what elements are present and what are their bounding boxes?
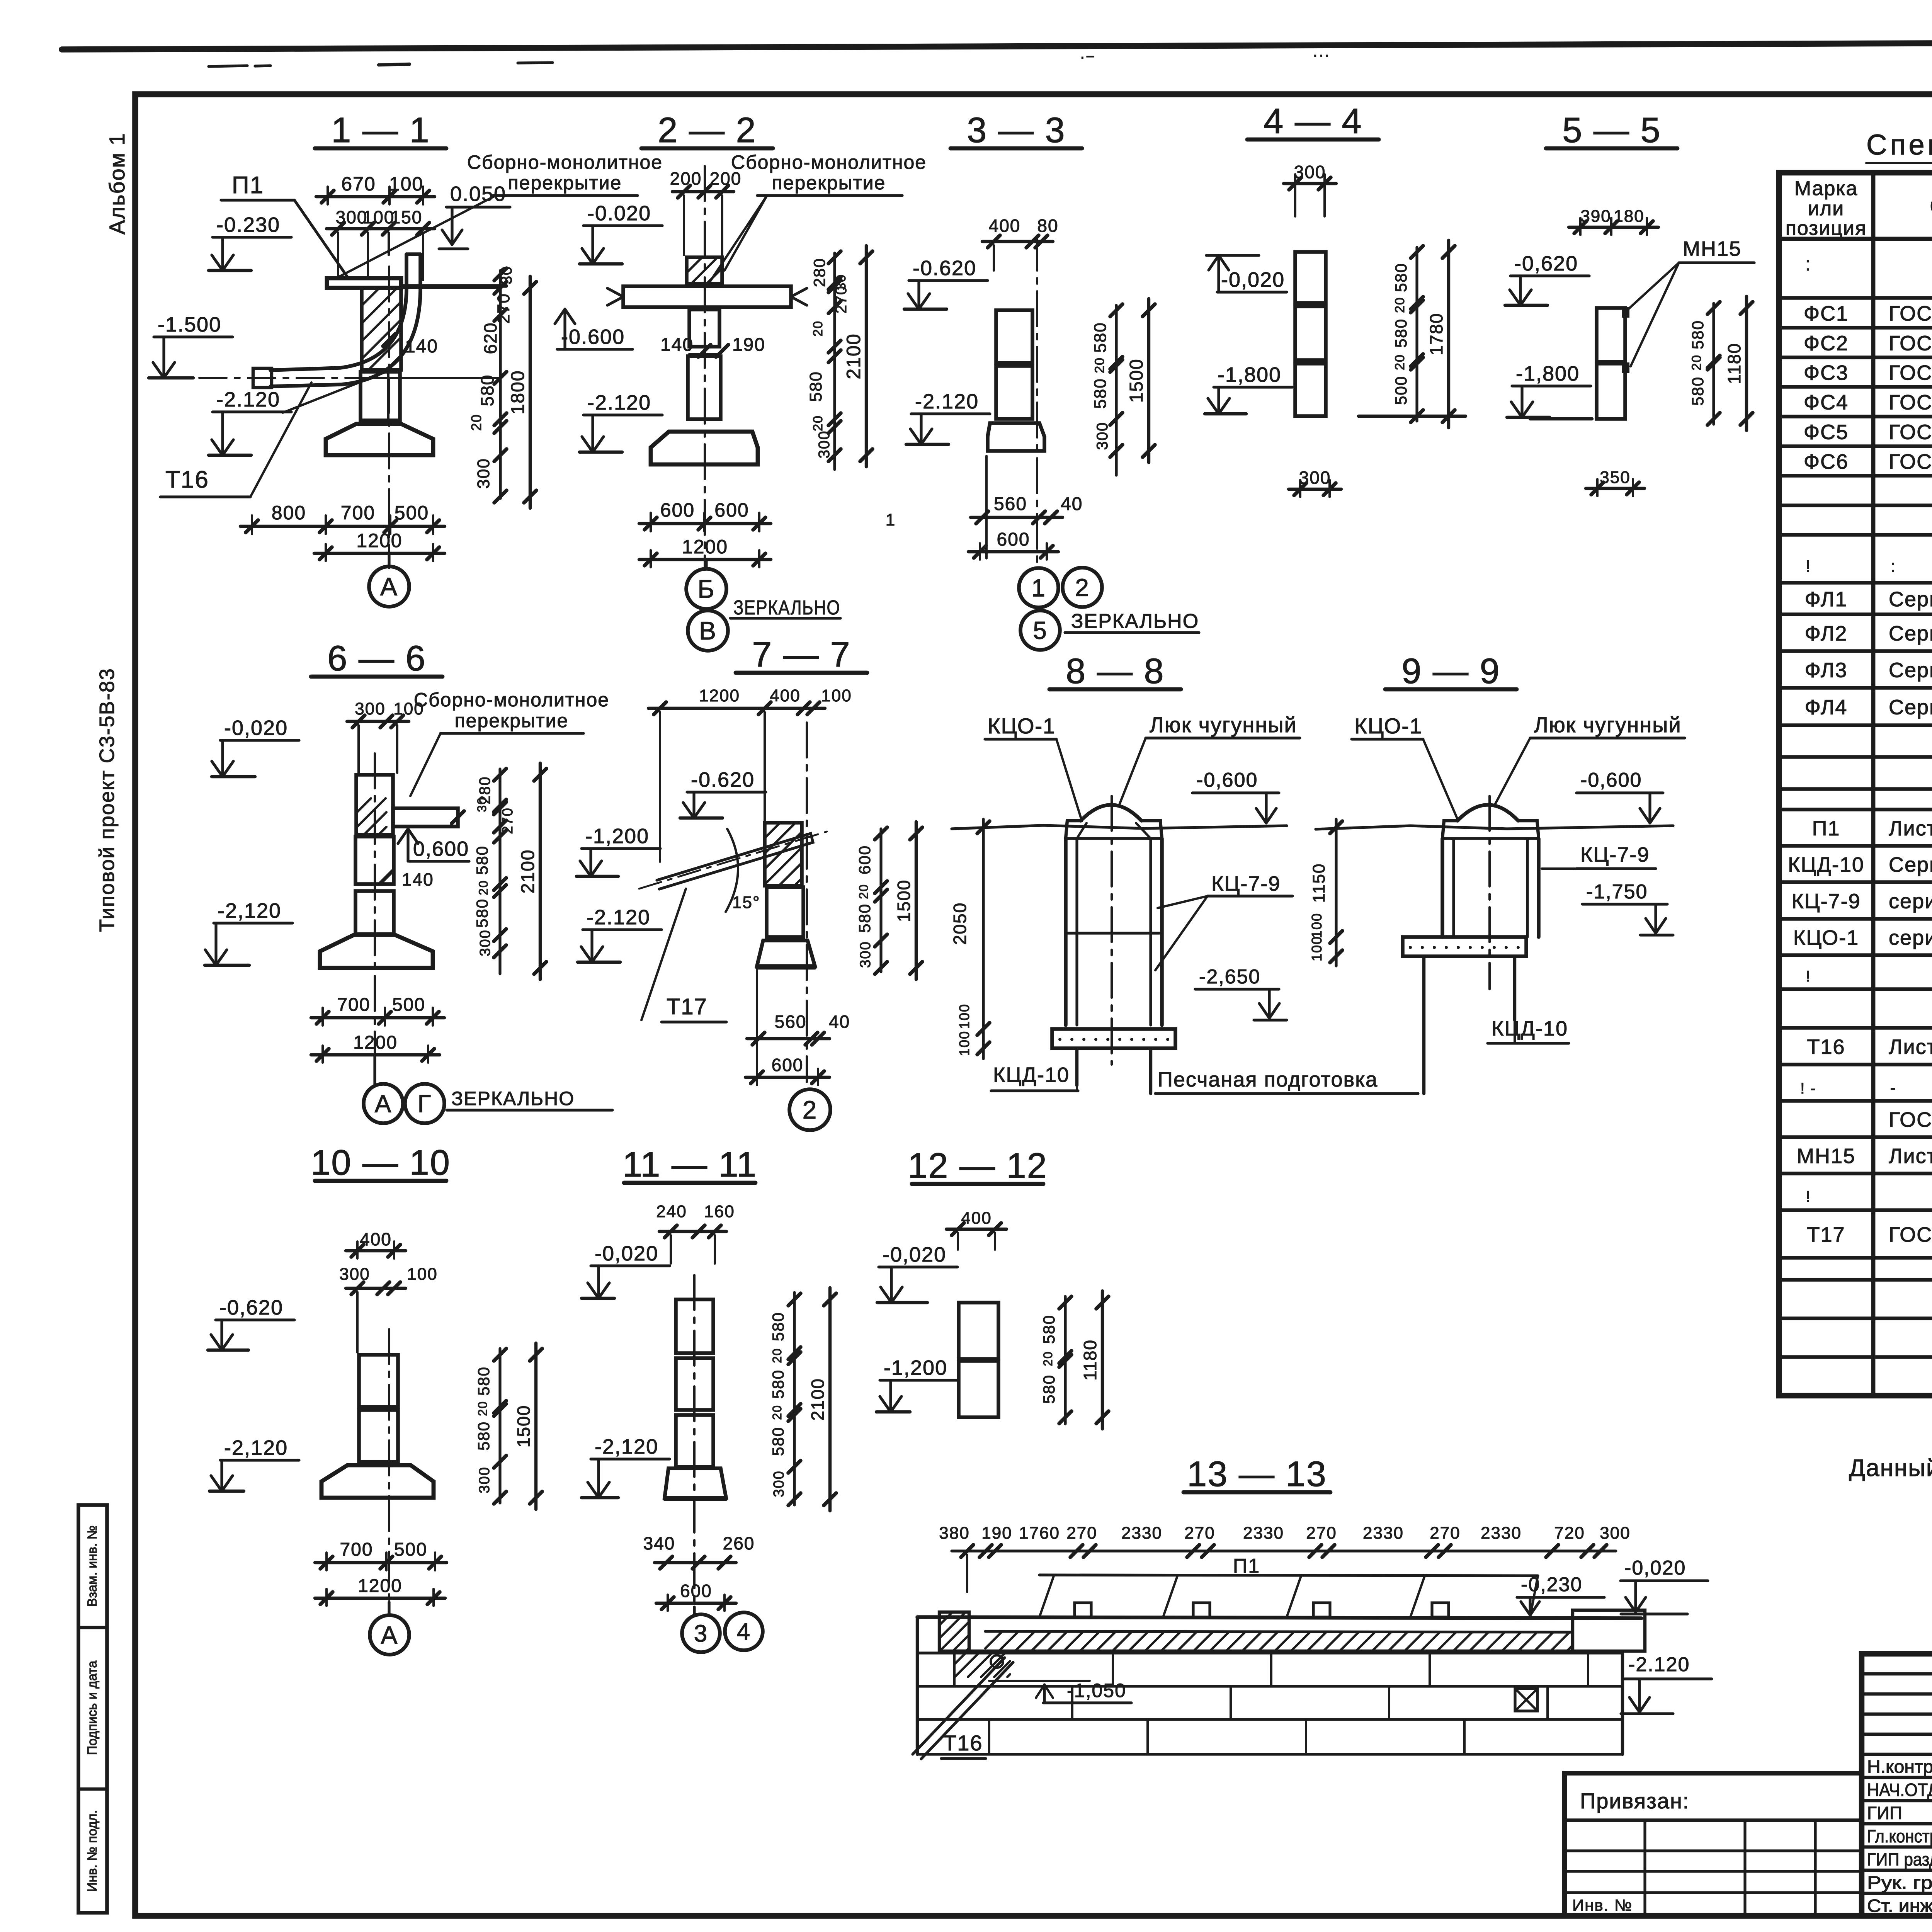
footing small trapezoid bbox=[665, 1468, 726, 1498]
svg-text:Взам. инв. №: Взам. инв. № bbox=[85, 1526, 100, 1607]
total 2100 bbox=[828, 1288, 832, 1511]
block bbox=[767, 887, 803, 937]
total 2100 bbox=[865, 246, 868, 467]
dim 300 100 bbox=[347, 720, 409, 723]
svg-text:4 — 4: 4 — 4 bbox=[1264, 102, 1362, 141]
svg-text:П1: П1 bbox=[232, 172, 264, 199]
svg-text:300: 300 bbox=[1600, 1524, 1630, 1543]
svg-text:580: 580 bbox=[477, 374, 497, 406]
svg-text:580: 580 bbox=[1392, 318, 1410, 348]
svg-text:Т16: Т16 bbox=[943, 1731, 983, 1755]
bottom dim 1200 bbox=[311, 1053, 440, 1056]
svg-text:1150: 1150 bbox=[1310, 863, 1328, 903]
bottom slab KCD-10 bbox=[1052, 1029, 1175, 1048]
svg-text:4: 4 bbox=[737, 1619, 751, 1645]
below-slab legs bbox=[1075, 1048, 1078, 1085]
blocks x3 bbox=[1295, 252, 1326, 303]
svg-text:300: 300 bbox=[1299, 468, 1331, 488]
svg-text:150: 150 bbox=[391, 207, 423, 227]
total 1800 bbox=[529, 276, 532, 508]
svg-text:580: 580 bbox=[1091, 378, 1110, 408]
svg-text:КЦ-7-9: КЦ-7-9 bbox=[1791, 890, 1861, 913]
svg-text:100: 100 bbox=[956, 1003, 972, 1029]
svg-text:ФЛ1: ФЛ1 bbox=[1805, 588, 1848, 611]
svg-text:20: 20 bbox=[811, 415, 825, 431]
svg-text:600: 600 bbox=[997, 529, 1030, 550]
footing trapezoid bbox=[326, 424, 433, 455]
svg-text:-0.600: -0.600 bbox=[561, 325, 625, 349]
svg-text:100: 100 bbox=[1309, 913, 1325, 938]
svg-text:270: 270 bbox=[1066, 1524, 1097, 1543]
svg-text:580: 580 bbox=[1392, 263, 1410, 292]
bottom dim 350 bbox=[1586, 487, 1645, 490]
svg-text:-0.620: -0.620 bbox=[691, 768, 755, 791]
svg-text:-2.120: -2.120 bbox=[216, 388, 280, 411]
centerline bbox=[388, 267, 390, 568]
svg-text:2100: 2100 bbox=[518, 849, 538, 894]
svg-text:300: 300 bbox=[857, 941, 874, 968]
svg-text:1180: 1180 bbox=[1724, 343, 1744, 384]
total 1180 bbox=[1101, 1291, 1104, 1429]
total 1500 bbox=[915, 822, 918, 980]
svg-text:КЦ-7-9: КЦ-7-9 bbox=[1580, 843, 1650, 866]
column blocks bbox=[355, 837, 394, 884]
angle arc 15deg bbox=[726, 829, 738, 912]
svg-text:Песчаная подготовка: Песчаная подготовка bbox=[1158, 1068, 1378, 1091]
svg-text:НАЧ.ОТД: НАЧ.ОТД bbox=[1867, 1780, 1932, 1800]
svg-text:580: 580 bbox=[855, 903, 874, 933]
svg-text:300: 300 bbox=[816, 430, 833, 459]
well walls double bbox=[1064, 838, 1068, 1025]
svg-text:ГИП разд: ГИП разд bbox=[1867, 1849, 1932, 1869]
svg-text:580: 580 bbox=[1040, 1374, 1058, 1404]
right dim chain bbox=[1115, 305, 1117, 475]
svg-text:Рук. гр.: Рук. гр. bbox=[1867, 1872, 1932, 1893]
svg-text:720: 720 bbox=[1554, 1524, 1585, 1543]
svg-text:40: 40 bbox=[1061, 494, 1083, 514]
svg-text:500: 500 bbox=[1392, 376, 1410, 405]
svg-text:Сборно-монолитное: Сборно-монолитное bbox=[467, 151, 663, 173]
svg-text:Люк чугунный: Люк чугунный bbox=[1150, 713, 1297, 737]
svg-text:ФЛ4: ФЛ4 bbox=[1805, 696, 1848, 719]
dims 1200 400 100 bbox=[648, 707, 825, 710]
centerline bbox=[806, 723, 808, 1082]
svg-text:200: 200 bbox=[670, 168, 702, 189]
svg-text:-1,200: -1,200 bbox=[884, 1356, 947, 1379]
svg-text:Н.контр.: Н.контр. bbox=[1867, 1757, 1932, 1777]
svg-text:600: 600 bbox=[680, 1581, 712, 1601]
svg-text::: : bbox=[1891, 557, 1896, 576]
centerline bbox=[374, 753, 376, 1080]
svg-text:Серия 1.112-5, вып.4: Серия 1.112-5, вып.4 bbox=[1889, 659, 1932, 682]
svg-text:20: 20 bbox=[770, 1348, 784, 1363]
svg-text:2050: 2050 bbox=[950, 902, 970, 945]
manhole dome bbox=[1081, 805, 1141, 821]
svg-text:8 — 8: 8 — 8 bbox=[1066, 651, 1164, 691]
total 1180 bbox=[1745, 296, 1748, 430]
privyazan box bbox=[1565, 1773, 1862, 1916]
svg-text:0,600: 0,600 bbox=[413, 837, 469, 861]
svg-text:260: 260 bbox=[723, 1533, 755, 1553]
top dim chain bbox=[952, 1549, 1616, 1552]
svg-text:-1.500: -1.500 bbox=[158, 313, 221, 336]
total 1500 bbox=[534, 1343, 537, 1509]
svg-text:180: 180 bbox=[1614, 207, 1644, 226]
axis circles 3 4 bbox=[682, 1614, 720, 1652]
svg-text:Типовой проект С3-5В-83: Типовой проект С3-5В-83 bbox=[95, 668, 119, 932]
svg-text:ФС2: ФС2 bbox=[1804, 332, 1849, 355]
svg-text:20: 20 bbox=[1092, 357, 1107, 373]
slab band with break arrows bbox=[623, 286, 791, 307]
svg-text:ФС6: ФС6 bbox=[1804, 450, 1849, 473]
bottom dim 1200 bbox=[314, 552, 445, 555]
svg-text:700: 700 bbox=[341, 502, 375, 524]
svg-text:Т16: Т16 bbox=[165, 466, 209, 493]
svg-text:2330: 2330 bbox=[1363, 1524, 1404, 1543]
svg-text:-2,650: -2,650 bbox=[1199, 966, 1260, 988]
pipe T16 curve bbox=[270, 254, 406, 370]
svg-text:Подпись и дата: Подпись и дата bbox=[85, 1661, 100, 1755]
slab band with notches bbox=[917, 1617, 1641, 1618]
svg-text:ЗЕРКАЛЬНО: ЗЕРКАЛЬНО bbox=[451, 1088, 575, 1109]
svg-text:140: 140 bbox=[405, 336, 438, 357]
svg-text:1200: 1200 bbox=[358, 1576, 402, 1596]
axis circle A bbox=[369, 566, 409, 607]
svg-text:190: 190 bbox=[732, 335, 765, 355]
svg-text:1 — 1: 1 — 1 bbox=[331, 111, 430, 150]
svg-text:-0,600: -0,600 bbox=[1580, 769, 1642, 791]
svg-text:270: 270 bbox=[1306, 1524, 1337, 1543]
svg-text:580: 580 bbox=[474, 1366, 493, 1396]
svg-text:-2.120: -2.120 bbox=[1628, 1653, 1690, 1676]
svg-text:Г: Г bbox=[418, 1090, 432, 1117]
svg-text:ФС4: ФС4 bbox=[1804, 391, 1849, 414]
svg-text:1500: 1500 bbox=[1126, 359, 1147, 403]
svg-text:Б: Б bbox=[697, 575, 715, 603]
svg-text:ЗЕРКАЛЬНО: ЗЕРКАЛЬНО bbox=[1071, 610, 1199, 633]
svg-text:КЦО-1: КЦО-1 bbox=[988, 714, 1056, 738]
svg-text:КЦД-10: КЦД-10 bbox=[1788, 853, 1864, 876]
axis circles A G bbox=[364, 1084, 403, 1123]
svg-text:20: 20 bbox=[1689, 354, 1704, 371]
svg-text:ГОСТ 13579-78: ГОСТ 13579-78 bbox=[1889, 450, 1932, 473]
svg-text:580: 580 bbox=[769, 1312, 787, 1341]
svg-text:ГОСТ 13579-78: ГОСТ 13579-78 bbox=[1889, 421, 1932, 444]
right dim chain bbox=[1415, 247, 1418, 421]
svg-text:Лист КШ-15: Лист КШ-15 bbox=[1889, 817, 1932, 840]
svg-text:270: 270 bbox=[500, 807, 516, 834]
svg-text::: : bbox=[1805, 253, 1811, 275]
axis circle A bbox=[370, 1615, 409, 1655]
svg-text:350: 350 bbox=[1600, 468, 1630, 487]
svg-text:580: 580 bbox=[769, 1427, 787, 1456]
svg-text:3 — 3: 3 — 3 bbox=[967, 111, 1065, 150]
svg-text:перекрытие: перекрытие bbox=[508, 172, 622, 194]
svg-text:700: 700 bbox=[337, 995, 370, 1015]
top block w/ hatch bbox=[356, 775, 393, 835]
svg-text:Инв. №: Инв. № bbox=[1572, 1896, 1633, 1914]
svg-text:Ст. инж.: Ст. инж. bbox=[1867, 1896, 1932, 1916]
svg-text:-0.020: -0.020 bbox=[587, 202, 651, 225]
column blocks bbox=[689, 310, 719, 347]
svg-text:80: 80 bbox=[1037, 216, 1058, 236]
centerline bbox=[693, 1275, 696, 1609]
svg-text:-2.120: -2.120 bbox=[915, 390, 979, 413]
svg-text:-0,020: -0,020 bbox=[1624, 1557, 1686, 1579]
dim 400 bbox=[946, 1228, 1007, 1231]
svg-text:300: 300 bbox=[771, 1470, 787, 1497]
dim 200 200 bbox=[672, 190, 734, 193]
bottom dims 340 260 bbox=[655, 1561, 736, 1564]
svg-text:-0,020: -0,020 bbox=[224, 716, 288, 740]
svg-text:190: 190 bbox=[981, 1524, 1012, 1543]
svg-text:ФС3: ФС3 bbox=[1804, 361, 1849, 384]
column block bbox=[361, 372, 400, 420]
axis circle B bbox=[686, 569, 726, 609]
svg-text:300: 300 bbox=[474, 458, 493, 488]
svg-text:500: 500 bbox=[394, 1539, 427, 1560]
svg-text:20: 20 bbox=[1041, 1351, 1055, 1366]
svg-text:МН15: МН15 bbox=[1683, 237, 1742, 260]
svg-text:А: А bbox=[381, 1621, 398, 1649]
svg-text:30: 30 bbox=[475, 797, 489, 812]
svg-text:13 — 13: 13 — 13 bbox=[1187, 1454, 1327, 1494]
svg-text:300: 300 bbox=[355, 699, 385, 718]
centerline bbox=[1036, 236, 1038, 564]
right end block bbox=[1573, 1610, 1645, 1651]
svg-text:Инв. № подл.: Инв. № подл. bbox=[85, 1810, 100, 1892]
svg-text:Обозначение: Обозначение bbox=[1930, 193, 1932, 220]
svg-text:300: 300 bbox=[477, 929, 493, 956]
svg-text:15°: 15° bbox=[732, 893, 760, 912]
svg-text:Т16: Т16 bbox=[1807, 1036, 1845, 1059]
total 1500 bbox=[1147, 299, 1150, 463]
svg-text:Привязан:: Привязан: bbox=[1580, 1789, 1689, 1813]
svg-text:1180: 1180 bbox=[1080, 1339, 1100, 1381]
dome bbox=[1458, 805, 1518, 821]
svg-text:Серия 1.112-5, вып.4: Серия 1.112-5, вып.4 bbox=[1889, 696, 1932, 719]
centerline bbox=[1111, 796, 1113, 1065]
axis circles 1 2 5 bbox=[1019, 568, 1058, 607]
svg-text:Лист КШ-17: Лист КШ-17 bbox=[1889, 1145, 1932, 1168]
svg-text:580: 580 bbox=[473, 898, 491, 928]
blocks x2 bbox=[959, 1303, 998, 1359]
svg-text:Т17: Т17 bbox=[1807, 1223, 1845, 1247]
svg-text:20: 20 bbox=[1393, 297, 1407, 313]
dim 400 80 bbox=[982, 240, 1053, 243]
svg-text:300: 300 bbox=[476, 1466, 493, 1493]
svg-text:серия 3.900-3, вып.7: серия 3.900-3, вып.7 bbox=[1889, 890, 1932, 913]
svg-text:ЗЕРКАЛЬНО: ЗЕРКАЛЬНО bbox=[733, 597, 840, 619]
svg-text:ГОСТ 1839-80: ГОСТ 1839-80 bbox=[1889, 1223, 1932, 1247]
svg-text:400: 400 bbox=[961, 1209, 992, 1228]
svg-text:600: 600 bbox=[772, 1055, 804, 1075]
left hatched pocket bbox=[939, 1612, 969, 1651]
svg-text:1500: 1500 bbox=[894, 879, 914, 922]
svg-text:1: 1 bbox=[886, 510, 896, 529]
dim 390 180 bbox=[1569, 226, 1658, 229]
svg-text:12 — 12: 12 — 12 bbox=[908, 1146, 1048, 1185]
footing trapezoid bbox=[320, 934, 433, 968]
svg-text:3: 3 bbox=[694, 1621, 708, 1647]
svg-text:-: - bbox=[1890, 1078, 1897, 1097]
svg-text:0.050: 0.050 bbox=[450, 182, 506, 206]
svg-text:-0.620: -0.620 bbox=[913, 257, 976, 280]
svg-text:800: 800 bbox=[272, 502, 306, 524]
bottom dim 600 bbox=[656, 1602, 736, 1605]
svg-text:2100: 2100 bbox=[843, 333, 864, 379]
svg-text:20: 20 bbox=[770, 1405, 784, 1420]
slab P1 bar bbox=[327, 278, 401, 288]
svg-text:580: 580 bbox=[1091, 322, 1110, 352]
svg-text:20: 20 bbox=[476, 880, 490, 895]
blocks x2 with notches bbox=[1597, 308, 1625, 362]
right dim chain bbox=[1712, 303, 1715, 424]
total 1780 bbox=[1447, 240, 1450, 428]
svg-text:Люк чугунный: Люк чугунный bbox=[1534, 713, 1682, 737]
svg-text:160: 160 bbox=[704, 1202, 735, 1221]
svg-text:! -: ! - bbox=[1800, 1080, 1816, 1097]
svg-text:П1: П1 bbox=[1812, 817, 1840, 840]
svg-text:-0,600: -0,600 bbox=[1196, 769, 1258, 791]
leader diag bbox=[283, 372, 386, 413]
right dim chain bbox=[1064, 1296, 1066, 1424]
footing trapezoid bbox=[651, 432, 758, 464]
brick pier bbox=[988, 423, 1044, 451]
svg-text:В: В bbox=[699, 616, 717, 645]
svg-text:Марка: Марка bbox=[1794, 177, 1858, 200]
svg-text:2330: 2330 bbox=[1481, 1524, 1522, 1543]
dim 400 bbox=[346, 1249, 406, 1252]
bottom dim 600 bbox=[968, 550, 1058, 553]
dims 560 40 bbox=[747, 1037, 830, 1040]
bottom dims 700 500 bbox=[315, 1561, 447, 1564]
svg-text:620: 620 bbox=[480, 322, 500, 354]
leader from sborno label to slab bbox=[335, 195, 497, 279]
svg-text:580: 580 bbox=[769, 1369, 787, 1399]
svg-text:!: ! bbox=[1806, 968, 1811, 985]
svg-text:100: 100 bbox=[363, 207, 395, 227]
blocks x2 bbox=[359, 1355, 398, 1407]
svg-text:Сборно-монолитное: Сборно-монолитное bbox=[731, 151, 927, 173]
svg-text:!: ! bbox=[1806, 1188, 1811, 1205]
svg-text:-2.120: -2.120 bbox=[587, 391, 651, 414]
footing trapezoid bbox=[321, 1465, 434, 1498]
svg-text:ФС1: ФС1 bbox=[1804, 302, 1849, 325]
svg-text:Данный лист смотреть совмес: Данный лист смотреть совместно с листом … bbox=[1849, 1455, 1932, 1481]
dim 600 bbox=[745, 1076, 830, 1079]
svg-text:6 — 6: 6 — 6 bbox=[327, 639, 426, 678]
ground line left bbox=[1530, 417, 1592, 420]
svg-text:2: 2 bbox=[803, 1095, 818, 1124]
right dim chain bbox=[793, 1293, 796, 1505]
svg-text:МН15: МН15 bbox=[1797, 1145, 1855, 1168]
dim 300 bbox=[1284, 182, 1336, 185]
svg-text:-1,800: -1,800 bbox=[1218, 363, 1281, 386]
svg-text:···: ··· bbox=[1313, 46, 1330, 63]
svg-text:7 — 7: 7 — 7 bbox=[752, 635, 850, 674]
svg-text:600: 600 bbox=[855, 845, 874, 874]
svg-text:270: 270 bbox=[833, 286, 850, 314]
svg-text:позиция: позиция bbox=[1786, 217, 1867, 240]
centerline bbox=[388, 1329, 390, 1611]
svg-text:-0,620: -0,620 bbox=[219, 1296, 283, 1319]
svg-text:40: 40 bbox=[829, 1012, 850, 1032]
svg-text:КЦД-10: КЦД-10 bbox=[993, 1063, 1070, 1087]
svg-text:100: 100 bbox=[389, 173, 423, 195]
svg-text:100: 100 bbox=[956, 1031, 972, 1056]
centerline bbox=[1488, 796, 1491, 989]
left dims 1150 100 100 bbox=[1335, 819, 1337, 966]
dim 300 100 bbox=[346, 1287, 406, 1290]
pipe open end bbox=[253, 368, 272, 388]
svg-text:500: 500 bbox=[392, 995, 425, 1015]
svg-text:600: 600 bbox=[714, 499, 749, 521]
svg-text:670: 670 bbox=[341, 173, 376, 195]
svg-text:400: 400 bbox=[989, 216, 1021, 236]
svg-text:2100: 2100 bbox=[808, 1378, 828, 1420]
svg-text:-1,050: -1,050 bbox=[1067, 1680, 1126, 1701]
svg-text:!: ! bbox=[1806, 557, 1811, 576]
svg-text:серия 3.900-3, вып.7: серия 3.900-3, вып.7 bbox=[1889, 926, 1932, 949]
svg-text:Гл.констр: Гл.констр bbox=[1867, 1826, 1932, 1846]
svg-text:2330: 2330 bbox=[1243, 1524, 1284, 1543]
dim 670 100 bbox=[316, 195, 435, 198]
footing small trapezoid bbox=[757, 940, 815, 966]
spec table grid bbox=[1779, 173, 1932, 1396]
svg-text:Серия1.112-5, вып.2: Серия1.112-5, вып.2 bbox=[1889, 588, 1932, 611]
ground line bbox=[1316, 826, 1673, 829]
centerline bbox=[704, 166, 706, 570]
svg-text:270: 270 bbox=[1184, 1524, 1215, 1543]
svg-text:400: 400 bbox=[770, 686, 800, 705]
svg-text:-0,620: -0,620 bbox=[1514, 252, 1578, 275]
svg-text:ГОСТ 3634-79: ГОСТ 3634-79 bbox=[1889, 1108, 1932, 1131]
svg-text:5: 5 bbox=[1033, 616, 1048, 644]
inclined pipe T17 bbox=[657, 833, 813, 889]
centerline water dashdot bbox=[151, 377, 359, 379]
title block outer bbox=[1862, 1654, 1932, 1916]
axis circle V bbox=[688, 611, 728, 651]
left dim 2050 100 100 bbox=[982, 819, 985, 1059]
ground line right bbox=[1359, 415, 1466, 418]
svg-text:ГОСТ 13579-78: ГОСТ 13579-78 bbox=[1889, 361, 1932, 384]
svg-text:300: 300 bbox=[339, 1265, 370, 1284]
below-slab legs bbox=[1422, 956, 1425, 1094]
svg-text:1200: 1200 bbox=[699, 686, 740, 705]
svg-text:Серия 3.900-3, вып.7: Серия 3.900-3, вып.7 bbox=[1889, 853, 1932, 876]
svg-text:·−: ·− bbox=[1080, 48, 1096, 65]
dim 300 100 150 bbox=[327, 227, 435, 230]
svg-text:580: 580 bbox=[473, 845, 491, 875]
right dim chain bbox=[879, 829, 882, 972]
svg-text:270: 270 bbox=[494, 293, 513, 323]
svg-text:9 — 9: 9 — 9 bbox=[1401, 651, 1500, 691]
svg-text:580: 580 bbox=[1040, 1315, 1058, 1344]
total 2100 bbox=[539, 763, 542, 980]
svg-text:Лист КШ-17: Лист КШ-17 bbox=[1889, 1036, 1932, 1059]
svg-text:580: 580 bbox=[1689, 376, 1707, 406]
svg-text:560: 560 bbox=[775, 1012, 807, 1032]
sheet top edge line bbox=[62, 41, 1932, 49]
svg-text:300: 300 bbox=[1294, 162, 1326, 182]
svg-text:600: 600 bbox=[660, 499, 695, 521]
right vertical dim chain bbox=[499, 270, 502, 498]
svg-text:1500: 1500 bbox=[514, 1405, 534, 1447]
hatched screed band bbox=[985, 1632, 1002, 1648]
svg-text:-2,120: -2,120 bbox=[595, 1435, 658, 1458]
bottom dims 700 500 bbox=[311, 1016, 444, 1019]
